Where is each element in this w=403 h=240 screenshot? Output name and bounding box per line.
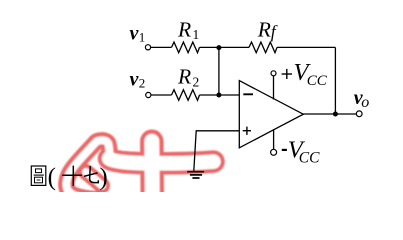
red vertical stroke	[140, 141, 164, 199]
svg-text:R: R	[177, 65, 191, 89]
wire plus input	[194, 131, 240, 171]
wire v2 to R2	[151, 94, 172, 96]
resistor Rf	[249, 42, 277, 53]
wire R2 to op-amp minus input	[200, 94, 240, 96]
op-amp plus sign	[243, 127, 251, 135]
caption: glyph 圖	[31, 166, 46, 185]
red flick inner white	[86, 172, 102, 186]
svg-text:CC: CC	[299, 149, 320, 166]
wire -Vcc	[273, 130, 275, 150]
svg-text:R: R	[257, 18, 271, 42]
red annotation stroke (marker tube)	[66, 140, 213, 199]
wire v1 to R1	[151, 46, 172, 48]
svg-text:R: R	[177, 17, 191, 41]
red diagonal stroke with bottom bend and hairpin hook	[66, 140, 109, 199]
svg-text:1: 1	[193, 27, 200, 42]
svg-text:2: 2	[139, 76, 146, 91]
svg-text:1: 1	[139, 30, 146, 45]
wire +Vcc	[273, 76, 275, 100]
label v1	[130, 22, 146, 44]
caption: glyph 七	[84, 166, 98, 183]
red bottom-right flick	[86, 172, 102, 186]
red horizontal band	[109, 159, 214, 164]
wire R1 to Rf	[200, 46, 250, 48]
svg-text:2: 2	[193, 75, 200, 90]
label -Vcc	[282, 136, 320, 166]
wire feedback vertical	[334, 47, 336, 114]
op-amp minus sign	[243, 93, 253, 95]
terminal v1	[145, 45, 150, 50]
terminal vo	[356, 111, 362, 117]
label Rf	[257, 18, 278, 42]
label R1	[177, 17, 199, 41]
label vo	[354, 87, 370, 111]
resistor R2	[172, 90, 200, 101]
terminal -Vcc	[271, 149, 277, 155]
label R2	[177, 65, 199, 90]
ground	[187, 172, 204, 178]
wire node vertical	[218, 47, 220, 95]
label +Vcc	[282, 59, 328, 89]
caption: glyph 十	[62, 166, 82, 186]
label v2	[130, 68, 146, 90]
svg-text:(: (	[48, 164, 56, 191]
red vertical inner white	[144, 141, 160, 199]
node B dot (inverting input)	[216, 93, 221, 98]
svg-text:CC: CC	[307, 73, 328, 89]
svg-text:o: o	[361, 94, 369, 111]
red diagonal inner white	[66, 140, 109, 199]
node output dot	[333, 112, 338, 117]
terminal v2	[146, 92, 151, 97]
resistor R1	[172, 42, 200, 53]
node A dot (R1/R2 junction top)	[216, 45, 221, 50]
wire Rf to right corner	[277, 46, 335, 48]
wire output	[303, 113, 356, 115]
op-amp U1 triangle	[239, 81, 303, 148]
red band inner white	[109, 159, 214, 164]
terminal +Vcc	[271, 71, 276, 76]
svg-text:): )	[99, 164, 107, 191]
